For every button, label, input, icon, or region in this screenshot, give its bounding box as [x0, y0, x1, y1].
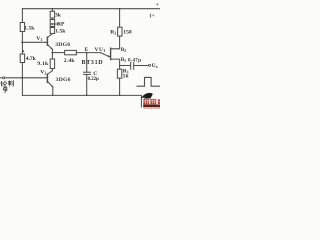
svg-text:0.22μ: 0.22μ [88, 77, 99, 82]
svg-text:BT31D: BT31D [82, 60, 104, 66]
svg-text:1.5k: 1.5k [24, 25, 35, 31]
svg-text:1.5k: 1.5k [55, 29, 66, 35]
svg-text:4.7k: 4.7k [26, 56, 37, 62]
svg-text:0.47μ: 0.47μ [128, 59, 141, 64]
svg-text:E: E [85, 47, 89, 53]
svg-text:(+: (+ [150, 12, 155, 19]
svg-text:+: + [156, 2, 159, 8]
svg-text:56: 56 [123, 74, 129, 80]
svg-text:RP: RP [57, 21, 65, 27]
svg-text:3k: 3k [55, 13, 62, 19]
svg-text:3DG6: 3DG6 [55, 42, 70, 48]
svg-text:150: 150 [123, 30, 132, 36]
svg-text:9.1k: 9.1k [37, 61, 49, 67]
svg-text:2.4k: 2.4k [64, 58, 76, 64]
svg-text:3DG6: 3DG6 [56, 77, 71, 83]
